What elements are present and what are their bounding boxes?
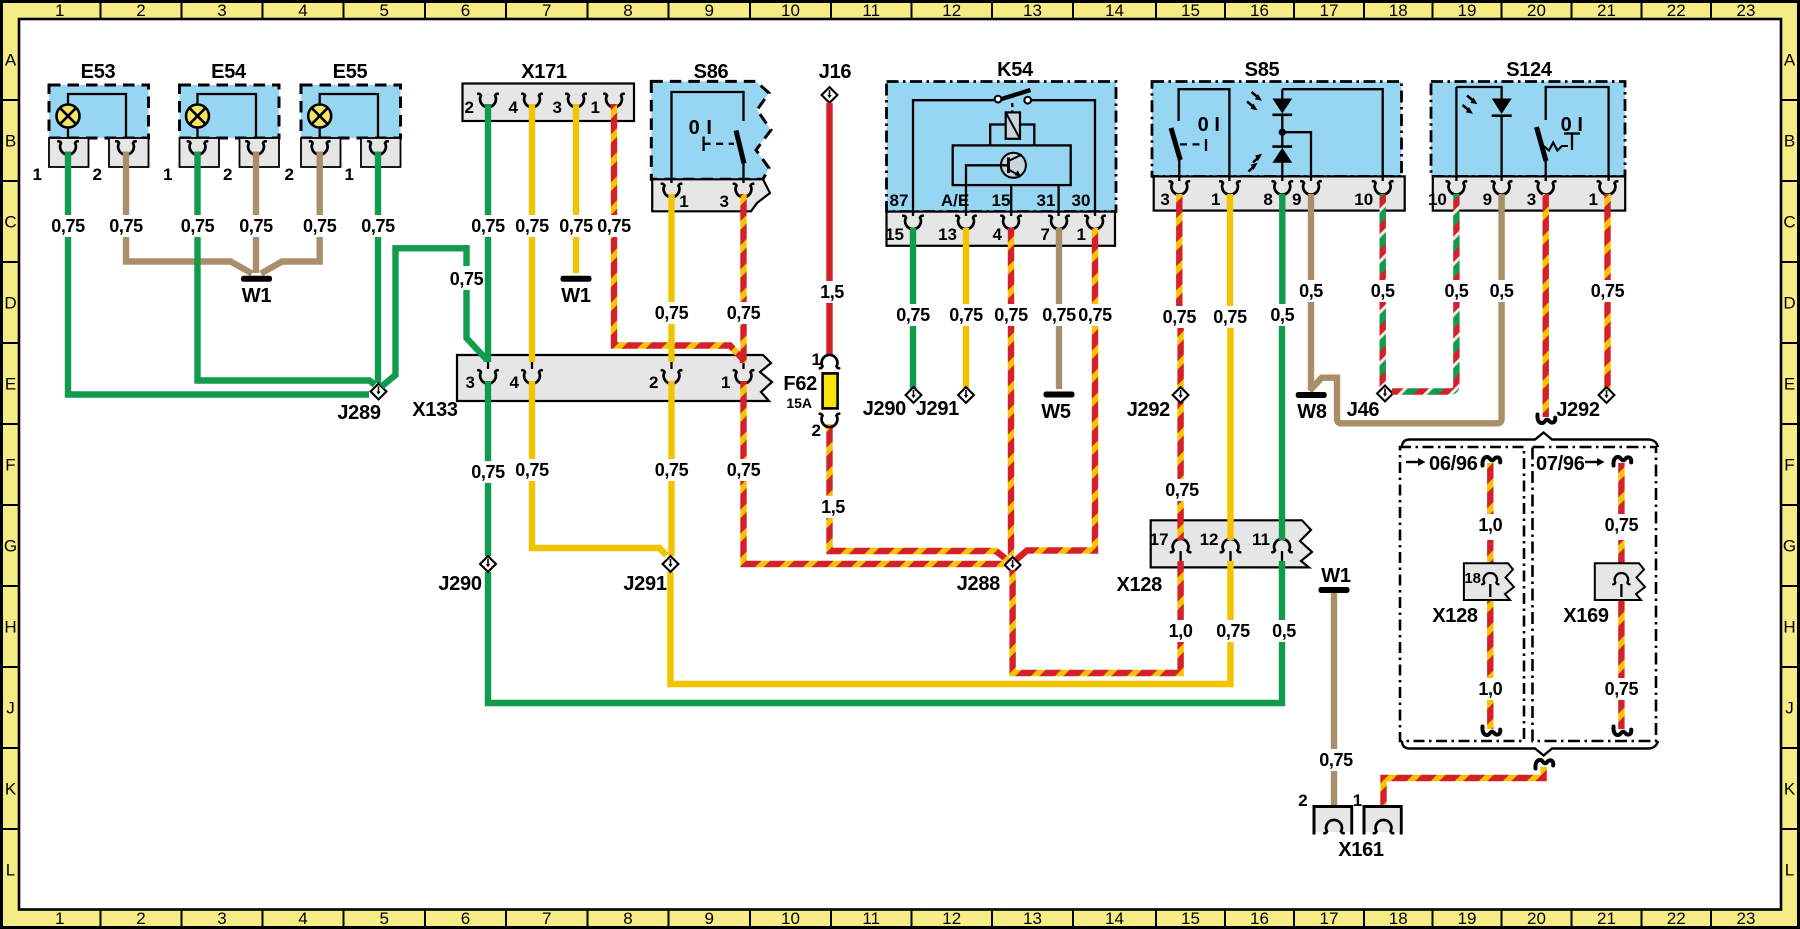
relay K54 <box>887 59 1117 246</box>
pin 9 of S85 <box>1292 181 1321 209</box>
wire green/white/red J46 to S124 pin 10 <box>1392 194 1471 392</box>
switch contact inside S85 <box>1171 89 1229 181</box>
svg-text:X128: X128 <box>1116 574 1162 596</box>
wire red/yellow S85 pin 3 through J292 to X128 pin 17 <box>1160 194 1201 540</box>
junction J292 below S124 <box>1556 387 1614 421</box>
svg-text:X171: X171 <box>521 61 567 83</box>
svg-text:C: C <box>4 213 16 232</box>
svg-text:16: 16 <box>1250 1 1269 20</box>
pin 1 of X171 <box>591 94 624 117</box>
svg-text:F: F <box>1784 456 1794 475</box>
wire size labels in variant boxes <box>1476 514 1641 700</box>
svg-text:23: 23 <box>1737 1 1756 20</box>
svg-text:K54: K54 <box>997 59 1034 81</box>
svg-text:J292: J292 <box>1556 399 1599 421</box>
svg-text:0,75: 0,75 <box>450 269 484 289</box>
svg-text:18: 18 <box>1389 1 1408 20</box>
wire red/yellow K54 pin 1 to junction J288 <box>1016 228 1112 560</box>
svg-text:8: 8 <box>623 909 632 928</box>
svg-text:B: B <box>5 132 16 151</box>
ground symbol W1 for X171 <box>561 276 592 307</box>
svg-text:0: 0 <box>1198 114 1209 136</box>
pin 2 of E53 <box>93 141 136 184</box>
connector strip X133 <box>412 355 772 421</box>
wire green E54 pin 1 to junction J289 <box>178 152 374 385</box>
svg-text:0,75: 0,75 <box>1165 480 1199 500</box>
svg-text:S86: S86 <box>694 61 729 83</box>
svg-text:I: I <box>1214 114 1219 136</box>
svg-text:0,75: 0,75 <box>655 460 689 480</box>
svg-text:J290: J290 <box>438 573 481 595</box>
svg-text:18: 18 <box>1389 909 1408 928</box>
svg-text:13: 13 <box>1023 909 1042 928</box>
svg-text:30: 30 <box>1072 191 1091 210</box>
svg-text:J292: J292 <box>1127 399 1170 421</box>
junction J46 <box>1347 386 1393 421</box>
svg-text:W1: W1 <box>242 285 272 307</box>
svg-text:18: 18 <box>1464 570 1481 587</box>
connection hook top 07/96 <box>1613 457 1631 466</box>
svg-text:0,75: 0,75 <box>949 305 983 325</box>
svg-text:2: 2 <box>223 165 232 184</box>
svg-text:9: 9 <box>705 1 714 20</box>
svg-text:12: 12 <box>1200 530 1219 549</box>
pin 2 of X171 <box>465 94 498 117</box>
svg-text:A/E: A/E <box>941 191 969 210</box>
junction J288 <box>957 557 1021 595</box>
svg-text:4: 4 <box>509 98 519 117</box>
transistor U inside K54 <box>953 145 1071 216</box>
svg-text:H: H <box>4 618 16 637</box>
svg-text:D: D <box>1783 294 1795 313</box>
wire yellow X133 pin 4 to junction J291 <box>513 381 667 556</box>
svg-text:2: 2 <box>136 1 145 20</box>
indicator LED inside S124 <box>1456 87 1511 181</box>
svg-text:G: G <box>1783 537 1796 556</box>
pin 1 of E53 <box>33 141 78 184</box>
svg-text:1: 1 <box>679 192 688 211</box>
wire green X171 pin 2 to X133 pin 3 <box>469 104 507 362</box>
svg-text:0,5: 0,5 <box>1444 281 1468 301</box>
svg-text:1: 1 <box>33 165 42 184</box>
svg-text:2: 2 <box>649 373 658 392</box>
pin 13 of K54 <box>938 216 976 244</box>
pin 4 of X133 <box>510 362 542 392</box>
ground W1 above X161 <box>1319 565 1351 593</box>
pin 4 of K54 <box>993 216 1021 244</box>
lamp E54 <box>180 61 280 167</box>
svg-text:0,5: 0,5 <box>1371 281 1395 301</box>
svg-text:8: 8 <box>1263 190 1272 209</box>
connection hook above X161 wire <box>1535 760 1553 769</box>
svg-text:11: 11 <box>862 1 880 20</box>
connector X128 in 06/96 <box>1432 563 1514 627</box>
svg-text:0,5: 0,5 <box>1272 621 1296 641</box>
wire red/yellow S86 pin 3 to X133 pin 1 <box>724 194 762 362</box>
svg-text:J46: J46 <box>1347 399 1380 421</box>
svg-text:9: 9 <box>1292 190 1301 209</box>
svg-text:J291: J291 <box>916 398 959 420</box>
pin 10 of S85 <box>1354 181 1392 209</box>
switch S86 <box>651 61 771 211</box>
ground symbol W5 <box>1041 392 1074 424</box>
svg-text:E54: E54 <box>211 61 247 83</box>
pin 2 of E54 <box>223 141 266 184</box>
wire yellow X171 pin 4 to X133 pin 4 <box>513 104 551 362</box>
svg-text:5: 5 <box>380 1 389 20</box>
svg-text:E: E <box>5 375 16 394</box>
terminal labels inside K54 <box>890 191 1091 210</box>
pin 15 of K54 <box>885 216 923 244</box>
svg-text:19: 19 <box>1458 1 1477 20</box>
svg-text:0: 0 <box>689 117 700 139</box>
svg-text:2: 2 <box>465 98 474 117</box>
pin 17 of X128 <box>1150 530 1191 561</box>
svg-text:10: 10 <box>1354 190 1373 209</box>
connector X161 pin 2 <box>1298 791 1351 835</box>
svg-text:23: 23 <box>1737 909 1756 928</box>
svg-text:19: 19 <box>1458 909 1477 928</box>
svg-text:7: 7 <box>542 1 551 20</box>
svg-text:A: A <box>1784 51 1796 70</box>
svg-text:1: 1 <box>1211 190 1220 209</box>
svg-text:13: 13 <box>938 225 957 244</box>
svg-text:2: 2 <box>1298 791 1307 810</box>
svg-text:0,75: 0,75 <box>239 216 273 236</box>
wire green bus up to X128 pin 11 and S85 pin 8 <box>1268 194 1299 642</box>
svg-text:15: 15 <box>1181 909 1200 928</box>
svg-text:0,75: 0,75 <box>515 216 549 236</box>
svg-text:8: 8 <box>623 1 632 20</box>
svg-text:3: 3 <box>466 373 475 392</box>
svg-text:A: A <box>5 51 17 70</box>
svg-text:0,75: 0,75 <box>1216 621 1250 641</box>
svg-text:0,75: 0,75 <box>994 305 1028 325</box>
svg-text:K: K <box>1784 780 1796 799</box>
svg-text:0,5: 0,5 <box>1270 305 1294 325</box>
svg-text:G: G <box>4 537 17 556</box>
connector strip X171 <box>463 61 635 121</box>
connector X161 pin 1 <box>1338 791 1401 861</box>
svg-text:1: 1 <box>1353 791 1362 810</box>
svg-text:11: 11 <box>1252 530 1270 549</box>
svg-text:0,75: 0,75 <box>471 462 505 482</box>
svg-text:11: 11 <box>862 909 880 928</box>
svg-text:1: 1 <box>1589 190 1598 209</box>
svg-text:X128: X128 <box>1432 605 1478 627</box>
pin 3 of X171 <box>553 94 586 117</box>
svg-text:1: 1 <box>591 98 600 117</box>
svg-text:J: J <box>1785 699 1794 718</box>
svg-text:0,75: 0,75 <box>181 216 215 236</box>
svg-text:4: 4 <box>510 373 520 392</box>
wire yellow S86 pin 1 to X133 pin 2 <box>652 194 690 362</box>
svg-text:1: 1 <box>55 1 64 20</box>
fuse F62 15A <box>783 350 839 440</box>
svg-text:F: F <box>5 456 15 475</box>
connector X169 in 07/96 <box>1563 563 1645 627</box>
svg-text:W1: W1 <box>1321 565 1351 587</box>
wire yellow X133 pin 2 to junction J291 and yellow bus <box>652 381 1230 684</box>
svg-text:22: 22 <box>1667 1 1686 20</box>
lamp E55 <box>301 61 401 167</box>
svg-text:D: D <box>4 294 16 313</box>
svg-text:0,75: 0,75 <box>1319 750 1353 770</box>
svg-text:1,5: 1,5 <box>821 497 845 517</box>
svg-text:20: 20 <box>1527 1 1546 20</box>
svg-text:4: 4 <box>298 1 307 20</box>
svg-text:0,75: 0,75 <box>1042 305 1076 325</box>
svg-text:2: 2 <box>812 421 821 440</box>
connection hook end of S124 pin 3 wire <box>1537 415 1555 424</box>
wire green E53 pin 1 to junction J289 <box>49 152 369 395</box>
svg-text:1,0: 1,0 <box>1478 679 1502 699</box>
svg-text:J289: J289 <box>337 402 380 424</box>
wire green K54 pin 15 to junction J290 <box>894 228 932 390</box>
svg-text:0,75: 0,75 <box>1078 305 1112 325</box>
pin 9 of S124 <box>1483 181 1512 209</box>
svg-text:1,0: 1,0 <box>1169 621 1193 641</box>
svg-text:0,75: 0,75 <box>727 460 761 480</box>
svg-text:1: 1 <box>721 373 730 392</box>
svg-text:3: 3 <box>720 192 729 211</box>
connection hook bottom 06/96 <box>1482 727 1500 736</box>
svg-text:0,75: 0,75 <box>597 216 631 236</box>
svg-text:10: 10 <box>1428 190 1447 209</box>
svg-text:E53: E53 <box>81 61 116 83</box>
wire red J16 to fuse F62 <box>817 61 851 356</box>
svg-text:J288: J288 <box>957 573 1000 595</box>
svg-text:3: 3 <box>1160 190 1169 209</box>
variant box 06/96 <box>1400 447 1524 741</box>
svg-text:0,75: 0,75 <box>361 216 395 236</box>
svg-text:0,5: 0,5 <box>1490 281 1514 301</box>
svg-text:14: 14 <box>1105 1 1124 20</box>
wire green E55 pin 1 down to junction J289 <box>359 152 397 384</box>
wire red/yellow from variant boxes to X161 pin 1 <box>1384 767 1544 818</box>
lamp E53 <box>49 61 149 167</box>
variant box 07/96 <box>1533 447 1657 741</box>
pin 8 of S85 <box>1263 181 1292 209</box>
wire brown E53 pin 2 to ground W1 <box>107 152 252 274</box>
svg-text:17: 17 <box>1150 530 1169 549</box>
svg-text:12: 12 <box>942 909 961 928</box>
svg-text:S85: S85 <box>1245 59 1280 81</box>
svg-text:2: 2 <box>285 165 294 184</box>
wire red/yellow J288 to connector X128 pin 17 <box>1013 561 1196 673</box>
svg-text:0,75: 0,75 <box>1605 515 1639 535</box>
latching switch inside S124 <box>1537 87 1609 181</box>
svg-text:16: 16 <box>1250 909 1269 928</box>
svg-text:17: 17 <box>1320 1 1339 20</box>
svg-text:21: 21 <box>1597 1 1616 20</box>
svg-text:20: 20 <box>1527 909 1546 928</box>
svg-text:W8: W8 <box>1297 401 1327 423</box>
wire brown S124 pin 9 to ground W8 <box>1310 194 1517 423</box>
svg-text:J291: J291 <box>623 573 666 595</box>
pin 3 of S124 <box>1527 181 1556 209</box>
svg-text:E: E <box>1784 375 1795 394</box>
wire brown E54 pin 2 to ground W1 <box>237 152 275 274</box>
svg-text:0,75: 0,75 <box>896 305 930 325</box>
pin 3 of S85 <box>1160 181 1189 209</box>
svg-text:4: 4 <box>993 225 1003 244</box>
pin 4 of X171 <box>509 94 542 117</box>
wire brown K54 pin 7 to ground W5 <box>1042 228 1076 389</box>
svg-text:3: 3 <box>553 98 562 117</box>
svg-text:1: 1 <box>55 909 64 928</box>
pin 1 of E55 <box>345 141 388 184</box>
switch unit S85 <box>1152 59 1405 211</box>
junction J289 <box>337 384 386 424</box>
brace below variant boxes <box>1402 741 1658 756</box>
svg-text:1,5: 1,5 <box>820 282 844 302</box>
svg-text:31: 31 <box>1037 191 1056 210</box>
svg-text:X169: X169 <box>1563 605 1609 627</box>
pin 10 of S124 <box>1428 181 1466 209</box>
svg-text:07/96: 07/96 <box>1536 453 1585 475</box>
pin 1 of X133 <box>721 362 753 392</box>
svg-text:0,75: 0,75 <box>559 216 593 236</box>
wire yellow K54 pin 13 to junction J291 <box>947 228 985 390</box>
connection hook top 06/96 <box>1482 457 1500 466</box>
wire yellow X171 pin 3 to ground W1 <box>557 104 595 273</box>
pin 1 of S86 <box>662 184 689 211</box>
pin 7 of K54 <box>1041 216 1069 244</box>
pin 2 of E55 <box>285 141 330 184</box>
indicator LEDs inside S85 <box>1247 89 1383 181</box>
svg-text:0,75: 0,75 <box>51 216 85 236</box>
wire green X133 pin 3 through J290 to green bus <box>469 381 1282 703</box>
svg-text:L: L <box>6 860 15 879</box>
junction J290 below K54 <box>863 387 922 420</box>
svg-text:S124: S124 <box>1506 59 1553 81</box>
svg-text:0,75: 0,75 <box>303 216 337 236</box>
switch unit S124 <box>1431 59 1625 211</box>
connection hook bottom 07/96 <box>1613 727 1631 736</box>
wire red/yellow fuse F62 to junction J288 <box>818 424 1008 561</box>
svg-text:1: 1 <box>1077 225 1086 244</box>
svg-text:1,0: 1,0 <box>1478 515 1502 535</box>
svg-text:X133: X133 <box>412 399 458 421</box>
junction J291 below K54 <box>916 387 974 420</box>
pin 3 of X133 <box>466 362 498 392</box>
svg-text:3: 3 <box>1527 190 1536 209</box>
svg-text:7: 7 <box>1041 225 1050 244</box>
svg-text:4: 4 <box>298 909 307 928</box>
svg-text:0,75: 0,75 <box>1591 281 1625 301</box>
wire red/yellow X133 pin 1 to junction J288 <box>724 381 1004 564</box>
svg-text:I: I <box>706 117 711 139</box>
svg-text:1: 1 <box>345 165 354 184</box>
svg-text:0,75: 0,75 <box>109 216 143 236</box>
svg-text:15: 15 <box>992 191 1011 210</box>
pin 12 of X128 <box>1200 530 1241 561</box>
svg-text:5: 5 <box>380 909 389 928</box>
svg-text:06/96: 06/96 <box>1429 453 1478 475</box>
wire brown S85 pin 9 to ground W8 <box>1296 194 1325 389</box>
pin 1 of K54 <box>1077 216 1105 244</box>
pin 1 of E54 <box>163 141 207 184</box>
wire red/yellow inside 06/96 via connector X128 pin 18 <box>1487 463 1493 729</box>
svg-text:1: 1 <box>812 350 821 369</box>
svg-text:L: L <box>1785 860 1794 879</box>
relay switch contact inside K54 <box>913 90 1095 216</box>
wire green J289 up to connector X133 pin 3 <box>382 245 488 387</box>
pin 1 of S124 <box>1589 181 1618 209</box>
svg-text:0,75: 0,75 <box>471 216 505 236</box>
svg-text:21: 21 <box>1597 909 1616 928</box>
svg-text:14: 14 <box>1105 909 1124 928</box>
svg-text:15: 15 <box>885 225 904 244</box>
pin 3 of S86 <box>720 184 754 211</box>
svg-text:10: 10 <box>781 1 800 20</box>
svg-text:0,75: 0,75 <box>1163 307 1197 327</box>
junction J292 below S85 <box>1127 387 1189 421</box>
svg-text:15: 15 <box>1181 1 1200 20</box>
svg-text:0,75: 0,75 <box>515 460 549 480</box>
wire brown from W1 to X161 pin 2 <box>1317 593 1355 818</box>
svg-text:0,5: 0,5 <box>1299 281 1323 301</box>
wire red/yellow X171 pin 1 to X133 pin 1 <box>595 104 743 363</box>
wire red/yellow S124 pin 3 to variant hook <box>1542 194 1548 417</box>
svg-text:6: 6 <box>461 909 470 928</box>
svg-text:12: 12 <box>942 1 961 20</box>
svg-text:9: 9 <box>1483 190 1492 209</box>
wire red/yellow K54 pin 4 to junction J288 <box>992 228 1030 556</box>
svg-text:17: 17 <box>1320 909 1339 928</box>
brace above variant boxes <box>1402 433 1658 448</box>
svg-text:13: 13 <box>1023 1 1042 20</box>
wire yellow bus up to X128 pin 12 and S85 pin 1 <box>1211 194 1252 642</box>
svg-text:W1: W1 <box>561 285 591 307</box>
wire red/yellow inside 07/96 via connector X169 <box>1618 463 1624 729</box>
relay coil inside K54 <box>990 112 1034 145</box>
svg-text:0,75: 0,75 <box>1605 679 1639 699</box>
svg-text:K: K <box>5 780 17 799</box>
svg-text:1: 1 <box>163 165 172 184</box>
svg-text:C: C <box>1783 213 1795 232</box>
svg-text:J: J <box>6 699 15 718</box>
svg-text:J16: J16 <box>819 61 852 83</box>
wire green/white/red S85 pin 10 to junction J46 <box>1368 194 1397 390</box>
svg-text:87: 87 <box>890 191 909 210</box>
svg-text:10: 10 <box>781 909 800 928</box>
svg-text:X161: X161 <box>1338 839 1384 861</box>
svg-text:W5: W5 <box>1041 401 1071 423</box>
wire red/yellow S124 pin 1 to junction J292 <box>1588 194 1626 390</box>
svg-text:0,75: 0,75 <box>1213 307 1247 327</box>
svg-text:J290: J290 <box>863 398 906 420</box>
svg-text:0,75: 0,75 <box>727 303 761 323</box>
svg-text:E55: E55 <box>333 61 368 83</box>
connector strip X128 <box>1116 520 1312 596</box>
wire brown E55 pin 2 to ground W1 <box>261 152 339 274</box>
svg-text:0,75: 0,75 <box>655 303 689 323</box>
svg-text:2: 2 <box>93 165 102 184</box>
svg-text:6: 6 <box>461 1 470 20</box>
svg-text:7: 7 <box>542 909 551 928</box>
ground symbol W1 for lamps <box>241 276 272 307</box>
svg-text:9: 9 <box>705 909 714 928</box>
junction J291 below X133 <box>623 556 678 595</box>
svg-text:B: B <box>1784 132 1795 151</box>
junction J290 below X133 <box>438 556 496 595</box>
svg-text:2: 2 <box>136 909 145 928</box>
svg-text:22: 22 <box>1667 909 1686 928</box>
svg-text:H: H <box>1783 618 1795 637</box>
pin 11 of X128 <box>1252 530 1292 561</box>
